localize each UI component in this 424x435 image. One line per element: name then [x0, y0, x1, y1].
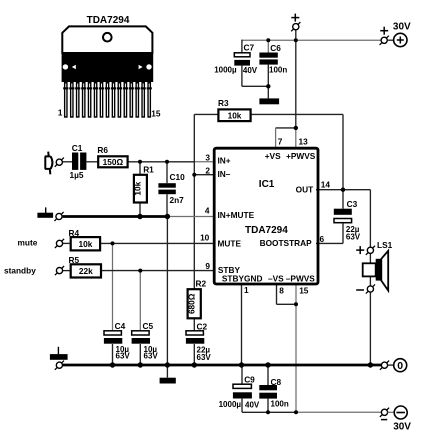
svg-text:IN+MUTE: IN+MUTE: [218, 210, 255, 220]
svg-text:9: 9: [205, 261, 210, 271]
svg-text:10k: 10k: [133, 181, 143, 195]
svg-text:LS1: LS1: [377, 240, 393, 250]
svg-text:+PWVS: +PWVS: [286, 151, 316, 161]
svg-text:C9: C9: [244, 374, 255, 384]
svg-text:3: 3: [205, 152, 210, 162]
svg-text:10k: 10k: [228, 111, 242, 121]
svg-text:63V: 63V: [197, 353, 212, 362]
svg-text:R6: R6: [97, 145, 108, 155]
svg-text:IN–: IN–: [218, 169, 231, 179]
svg-text:IN+: IN+: [218, 156, 231, 166]
svg-text:150Ω: 150Ω: [103, 157, 124, 167]
svg-text:R3: R3: [218, 98, 229, 108]
svg-text:R1: R1: [143, 164, 154, 174]
svg-text:–PWVS: –PWVS: [286, 274, 316, 284]
svg-text:STBYGND: STBYGND: [222, 274, 263, 284]
svg-text:R4: R4: [69, 228, 80, 238]
svg-text:C2: C2: [197, 321, 208, 331]
svg-text:7: 7: [278, 137, 283, 147]
svg-text:40V: 40V: [245, 401, 260, 410]
svg-text:30V: 30V: [393, 422, 411, 433]
svg-text:40V: 40V: [243, 66, 258, 75]
svg-text:C7: C7: [244, 43, 255, 53]
svg-text:OUT: OUT: [296, 184, 314, 194]
svg-text:63V: 63V: [346, 233, 361, 242]
svg-text:TDA7294: TDA7294: [245, 225, 288, 236]
svg-text:8: 8: [279, 285, 284, 295]
svg-text:BOOTSTRAP: BOOTSTRAP: [260, 238, 313, 248]
svg-text:C5: C5: [143, 321, 154, 331]
svg-text:TDA7294: TDA7294: [87, 15, 130, 26]
svg-text:13: 13: [299, 137, 309, 147]
svg-text:2: 2: [205, 166, 210, 176]
svg-text:R2: R2: [196, 279, 207, 289]
svg-text:C1: C1: [72, 143, 83, 153]
svg-text:1: 1: [244, 285, 249, 295]
svg-text:10: 10: [200, 233, 210, 243]
svg-text:C3: C3: [347, 199, 358, 209]
svg-text:100n: 100n: [271, 399, 289, 408]
svg-text:100n: 100n: [269, 65, 287, 74]
svg-text:22k: 22k: [79, 266, 93, 276]
svg-text:15: 15: [299, 285, 309, 295]
svg-text:15: 15: [151, 108, 161, 118]
svg-text:R5: R5: [69, 255, 80, 265]
svg-text:C8: C8: [271, 377, 282, 387]
svg-text:–VS: –VS: [268, 274, 284, 284]
svg-text:10k: 10k: [78, 239, 92, 249]
svg-text:MUTE: MUTE: [218, 239, 242, 249]
svg-text:4: 4: [205, 206, 210, 216]
svg-text:1: 1: [58, 108, 63, 118]
svg-text:+VS: +VS: [265, 151, 281, 161]
svg-text:mute: mute: [18, 237, 38, 247]
svg-text:1000µ: 1000µ: [214, 65, 237, 74]
svg-text:14: 14: [321, 179, 331, 189]
svg-text:C10: C10: [170, 172, 186, 182]
svg-text:1000µ: 1000µ: [219, 400, 242, 409]
svg-text:0: 0: [397, 360, 403, 372]
svg-text:63V: 63V: [144, 352, 159, 361]
svg-text:680Ω: 680Ω: [186, 293, 196, 314]
svg-text:1µ5: 1µ5: [70, 170, 84, 180]
svg-text:C4: C4: [115, 321, 126, 331]
svg-text:2n7: 2n7: [170, 195, 185, 205]
svg-text:C6: C6: [270, 43, 281, 53]
svg-text:IC1: IC1: [259, 179, 275, 190]
svg-text:standby: standby: [4, 266, 36, 276]
svg-text:63V: 63V: [116, 352, 131, 361]
svg-text:6: 6: [320, 234, 325, 244]
svg-text:30V: 30V: [393, 22, 411, 33]
